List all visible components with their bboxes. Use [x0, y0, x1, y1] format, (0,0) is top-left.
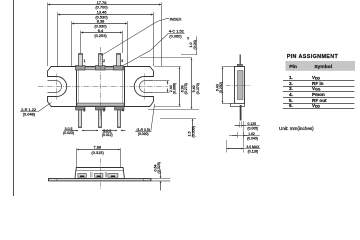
svg-text:Symbol: Symbol: [314, 64, 332, 70]
svg-text:6: 6: [83, 109, 85, 113]
svg-text:(0.096): (0.096): [173, 83, 177, 94]
svg-text:(0.040): (0.040): [247, 136, 258, 140]
left inner slot: [48, 81, 62, 93]
side bottom lead: [240, 105, 242, 121]
svg-text:(0.118): (0.118): [248, 149, 259, 153]
slot ticks on bar: [56, 179, 58, 181]
dim ext lines top: [47, 3, 49, 67]
2-R leader: [38, 102, 51, 111]
svg-text:3: 3: [121, 59, 123, 63]
side gray ceramic: [238, 71, 244, 100]
svg-text:VDD: VDD: [312, 75, 321, 81]
bottom leads: [79, 110, 82, 128]
dim 8.38: [72, 23, 127, 25]
front feet: [78, 174, 86, 178]
pin sections dark: [80, 176, 84, 178]
dim 1.9 min vertical with up arrow: [192, 119, 194, 137]
svg-text:Pin: Pin: [289, 64, 297, 70]
left flange outline: [48, 67, 77, 107]
svg-text:(0.020): (0.020): [138, 132, 149, 136]
dim A 2.44 arrows: [167, 81, 169, 84]
flange thickness dim right: [152, 178, 171, 180]
svg-text:7.88: 7.88: [94, 145, 102, 150]
dim 17.78: [48, 4, 161, 6]
svg-text:(0.048): (0.048): [23, 112, 36, 117]
4-C leader: [123, 34, 168, 66]
svg-text:(0.020): (0.020): [63, 131, 74, 135]
svg-text:PIN ASSIGNMENT: PIN ASSIGNMENT: [287, 54, 339, 60]
dim 13.46: [58, 14, 153, 16]
svg-text:INDEX: INDEX: [170, 16, 182, 21]
side dims below: 3.0 MAX: [227, 148, 261, 150]
centerline vertical: [100, 47, 102, 120]
dim 7.88: [76, 148, 78, 167]
svg-text:1.: 1.: [289, 75, 293, 80]
slot centerline left: [56, 74, 58, 100]
top pads 1,2,3: [76, 66, 86, 71]
svg-text:3.0 MAX: 3.0 MAX: [246, 145, 260, 149]
front cap line: [76, 170, 124, 172]
bottom pads 6,5,4: [76, 107, 86, 111]
dim 6.40 ext: [222, 66, 235, 68]
page border left: [13, 0, 15, 196]
ext line pad bottoms: [148, 109, 199, 111]
side dims below: 0.125: [235, 125, 260, 127]
front centerline: [100, 159, 102, 190]
side centerline: [226, 85, 251, 87]
svg-text:5: 5: [103, 109, 105, 113]
svg-text:(0.012): (0.012): [102, 133, 113, 137]
top view: top seal band: [77, 67, 124, 70]
dim C vertical: [191, 58, 193, 109]
bottom lead dims row: [71, 130, 78, 132]
INDEX leader: [101, 19, 167, 56]
svg-text:(0.315): (0.315): [91, 150, 104, 155]
vertical line right of rotated text: [196, 36, 198, 54]
dim 6.4: [81, 32, 122, 34]
side bottom lip: [231, 104, 245, 107]
lead caps: [78, 53, 82, 55]
dim 6.40 vertical: [222, 67, 224, 103]
front body: [75, 168, 125, 179]
svg-text:Unit: mm(inches): Unit: mm(inches): [279, 126, 314, 131]
divider lines: [90, 172, 92, 177]
svg-text:Pmon: Pmon: [312, 92, 325, 97]
ext line for dim C top: [140, 57, 192, 59]
svg-text:(0.060): (0.060): [169, 33, 182, 38]
right inner slot: [139, 81, 153, 93]
rotated dim near 4-C: arrow: [187, 37, 189, 40]
right side ext lines: [154, 66, 181, 68]
svg-text:(0.275): (0.275): [184, 83, 188, 94]
flange end chamfers: [49, 179, 51, 180]
top view: bottom seal band: [77, 103, 124, 106]
svg-text:4.: 4.: [289, 92, 293, 97]
top view: body outer: [77, 67, 125, 107]
slot centerline right: [144, 74, 146, 100]
right flange outline: [125, 67, 154, 107]
svg-text:(0.025): (0.025): [157, 162, 161, 173]
centerline horizontal: [38, 86, 168, 88]
dim B vertical: [179, 67, 181, 106]
ext line 118.5: [160, 118, 196, 120]
svg-text:(0.252): (0.252): [219, 82, 223, 93]
svg-text:(0.370): (0.370): [196, 83, 200, 94]
svg-text:4: 4: [122, 109, 124, 113]
top view: body inner lid line: [79, 69, 123, 105]
svg-text:(0.059): (0.059): [191, 126, 195, 137]
svg-text:(0.253): (0.253): [94, 33, 107, 38]
ext line pin tip level: [181, 54, 197, 56]
side body: [235, 67, 245, 104]
front flange bar: [49, 179, 152, 181]
side top lead: [240, 55, 241, 65]
top leads 1,2,3: [79, 54, 83, 67]
1-R leader: [151, 104, 155, 132]
svg-text:1: 1: [84, 59, 86, 63]
svg-text:(0.005): (0.005): [247, 126, 258, 130]
side dims below: 1.02: [229, 135, 260, 137]
svg-text:2: 2: [103, 59, 105, 63]
